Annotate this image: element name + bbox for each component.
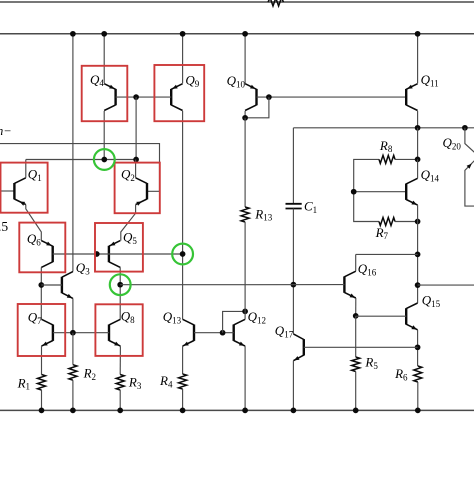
wire Q10 collector to R13 [244, 118, 246, 207]
wire C1 to Q17 collector [292, 209, 294, 334]
highlight box Q5 [95, 223, 143, 272]
capacitor C1 [286, 204, 302, 209]
wire VCC to Q10 emitter [244, 34, 246, 84]
junction dot R7 right [415, 219, 421, 225]
transistor Q12 [234, 319, 245, 346]
arrow Q20 emitter [467, 164, 472, 169]
transistor Q7 [42, 319, 53, 346]
transistor Q2 [136, 178, 147, 206]
highlight box Q2 [115, 163, 160, 214]
svg-text:n−: n− [0, 124, 12, 138]
wire Q9 collector down long [182, 111, 184, 319]
junction dot VCC x73 [70, 31, 76, 37]
transistor Q6 [41, 241, 52, 268]
wire Q10 base to Q11 base [257, 96, 407, 98]
junction dot Q11 collector [415, 125, 421, 131]
highlight box Q1 [1, 163, 48, 213]
junction dot Q7Q8 base [70, 330, 76, 336]
wire Q5 collector down [119, 267, 121, 319]
wire R1 to VEE [41, 390, 43, 410]
wire Q13 emitter to R4 [182, 346, 184, 374]
wire Q16 node to R5 [355, 316, 357, 357]
highlight box Q6 [19, 223, 65, 273]
wire Q8 emitter to R3 [119, 346, 121, 374]
transistor Q16 [344, 271, 355, 298]
wire R3 to VEE [119, 390, 121, 410]
wire Q14 base [354, 191, 407, 193]
wire Q4 collector to node A [103, 111, 105, 160]
symmetry node circle node A [94, 149, 115, 170]
wire Q3 emitter node to R2 [72, 333, 74, 365]
junction dot VCC x104 [101, 31, 107, 37]
junction dot Q4Q9 base [133, 94, 139, 100]
transistor Q8 [109, 319, 120, 346]
second supply rail VCC [0, 33, 474, 35]
wire In+ input to Q1 base [0, 190, 14, 192]
junction dot node D green [117, 282, 123, 288]
symmetry node circle node D [110, 274, 131, 295]
wire R13 to Q12 collector [244, 222, 246, 319]
wire down to C1 [292, 128, 294, 204]
wire Q1 collector up [25, 160, 27, 178]
transistor Q14 [406, 178, 417, 205]
wire VCC to Q3 collector [72, 34, 74, 272]
transistor Q13 [183, 319, 194, 346]
resistor R4 [179, 374, 187, 389]
junction dot VCC x418 [415, 31, 421, 37]
wire Q2 collector up [135, 160, 137, 178]
wire Q11 collector row [293, 127, 474, 129]
transistor Q4 [104, 84, 115, 111]
wire Q17 base row [304, 346, 418, 348]
highlight box Q4 [82, 66, 128, 121]
resistor R1 [38, 375, 46, 391]
resistor R6 [414, 366, 422, 382]
wire VCC to Q9 emitter [182, 34, 184, 84]
wire Q20 collector lead [465, 160, 474, 206]
wire R5 to VEE [355, 372, 357, 411]
wire R6 to VEE [417, 382, 419, 410]
wire Q16 collector [355, 254, 357, 271]
resistor R5 [352, 357, 360, 372]
highlight box Q9 [154, 65, 204, 121]
wire Q15 base [356, 315, 407, 317]
junction dot node C green [180, 251, 186, 257]
wire Q17 emitter down [292, 361, 294, 411]
wire Q16 emitter down [355, 298, 357, 316]
wire Q15 emitter down [417, 330, 419, 366]
wire Q6 collector down [40, 267, 42, 319]
wire Q16 collector row [356, 253, 418, 255]
junction dot Q14 base [351, 189, 357, 195]
resistor R3 [116, 375, 124, 391]
wire Q15 output row [418, 284, 474, 286]
wire Q1 emitter to Q6 [26, 205, 42, 241]
junction dot VCC x245 [242, 31, 248, 37]
transistor Q15 [406, 303, 417, 330]
wire R8 right to column [395, 158, 418, 160]
wire Q2 emitter to Q5 [121, 205, 136, 241]
resistor R2 [69, 365, 77, 381]
junction dot Q17 base node [415, 344, 421, 350]
resistor R8 [379, 155, 395, 163]
bottom rail VEE [0, 409, 474, 411]
wire Q10 diode connection [245, 97, 269, 118]
wire Q12 diode connection [223, 311, 246, 332]
junction dot VEE x293 [291, 408, 297, 414]
svg-text:.5: .5 [0, 219, 8, 234]
wire Q6 base to Q5 base to node C [53, 253, 183, 255]
junction dot node B [133, 157, 139, 163]
junction dot R8 right [415, 157, 421, 163]
wire Q12 emitter to VEE [244, 346, 246, 410]
junction dot Q13Q12 base [220, 330, 226, 336]
junction dot Q10 collector [242, 115, 248, 121]
wire R7 right to column [395, 221, 418, 223]
wire R2 to VEE [72, 380, 74, 410]
transistor Q11 [406, 84, 417, 111]
junction dot VEE x356 [353, 408, 359, 414]
junction dot VEE x418 [415, 408, 421, 414]
top supply rail [0, 1, 474, 3]
wire Q4 base to Q9 base [116, 96, 172, 98]
junction dot VEE x73 [70, 408, 76, 414]
wire Q3 base [41, 284, 62, 286]
wire base node down to node B [135, 97, 137, 159]
highlight box Q8 [95, 304, 142, 356]
wire Q10 collector lead [244, 111, 246, 118]
wire VCC to Q11 emitter [417, 34, 419, 84]
highlight box Q7 [18, 304, 65, 356]
junction dot VEE x42 [39, 408, 45, 414]
wire Q14 down to Q15 [417, 222, 419, 303]
wire Q14 emitter to R7 node [417, 205, 419, 221]
transistor Q3 [62, 272, 73, 299]
wire VCC to Q4 emitter [103, 34, 105, 84]
junction dot VEE x120 [117, 408, 123, 414]
transistor Q5 [109, 241, 120, 268]
wire Q16 base row [120, 284, 344, 286]
junction dot Q12 collector [242, 309, 248, 315]
wire Q11 collector lead [417, 111, 419, 128]
junction dot C1 node [291, 282, 297, 288]
junction dot x418 y285 [415, 282, 421, 288]
junction dot VCC x183 [180, 31, 186, 37]
wire Q7 base to Q8 base [53, 332, 109, 334]
wire node row y159 [26, 159, 136, 161]
junction dot Q10 base [266, 94, 272, 100]
resistor R13 [241, 207, 249, 222]
transistor Q10 [245, 84, 256, 111]
junction dot base pair [94, 251, 100, 257]
junction dot node A green [101, 157, 107, 163]
symmetry node circle node C [172, 244, 193, 265]
junction dot VEE x183 [180, 408, 186, 414]
wire In- input to Q2 base [0, 144, 160, 192]
transistor Q17 [293, 334, 303, 361]
junction dot Q20 base [462, 125, 468, 131]
wire R4 to VEE [182, 389, 184, 410]
wire R8 node to Q14 collector [417, 159, 419, 178]
transistor Q9 [171, 84, 182, 111]
junction dot VEE x245 [242, 408, 248, 414]
wire Q3 emitter down [72, 298, 74, 332]
transistor Q1 [14, 178, 25, 206]
junction dot x418 y254 [415, 252, 421, 258]
wire R8 left branch [354, 159, 379, 221]
wire Q13 base to Q12 base [194, 332, 234, 334]
resistor R7 [379, 218, 395, 226]
wire Q20 emitter lead [465, 128, 474, 153]
resistor on top rail [268, 0, 284, 6]
wire Q7 emitter to R1 [41, 346, 43, 374]
junction dot Q16 emitter node [353, 313, 359, 319]
wire Q11 collector to R8 node [417, 128, 419, 160]
junction dot Q3 base node [38, 282, 44, 288]
